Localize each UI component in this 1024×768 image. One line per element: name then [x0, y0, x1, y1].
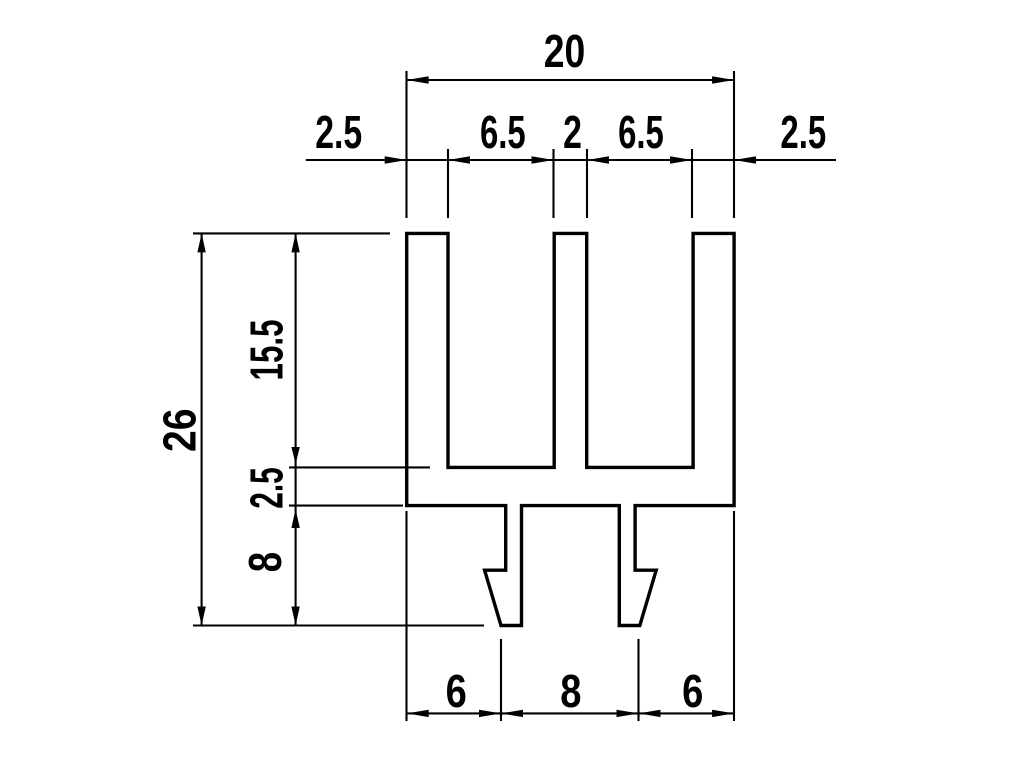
svg-text:6.5: 6.5	[480, 106, 526, 158]
arrow at x587 pointing left	[587, 156, 609, 163]
arrow 6 left end	[407, 710, 429, 717]
extension line slot bottom (y=467.4)	[289, 466, 430, 468]
arrow at x553.5 pointing right	[532, 156, 554, 163]
svg-text:8: 8	[560, 665, 581, 717]
arrow at x734.1 pointing left	[734, 156, 756, 163]
arrow 6 left end at x638.5	[639, 710, 661, 717]
extension line middle wall left (x=553.5)	[552, 149, 554, 218]
arrow at x692 pointing right	[670, 156, 692, 163]
arrow 15.5 bottom	[291, 447, 299, 464]
chained dimension line 2.5 / 6.5 / 2 / 6.5 / 2.5	[306, 159, 836, 161]
svg-text:2: 2	[563, 106, 582, 158]
arrow 20 left	[407, 76, 429, 83]
svg-text:6: 6	[446, 665, 467, 717]
svg-text:2.5: 2.5	[241, 467, 293, 509]
dimension line 26	[201, 233, 203, 625]
extension line left wall inner (x=448)	[447, 149, 449, 218]
dimension line 20	[407, 79, 734, 81]
arrow 26 top	[197, 233, 205, 252]
arrow 8 left end at x501	[501, 710, 523, 717]
arrow 6 right end at x501	[479, 710, 501, 717]
arrow 15.5 top	[291, 233, 299, 252]
arrow 26 bottom	[197, 607, 205, 626]
svg-text:2.5: 2.5	[315, 106, 362, 158]
arrow 8 bottom	[291, 607, 299, 626]
extension line middle wall right (x=587)	[586, 149, 588, 218]
extension line right wall inner (x=692)	[691, 149, 693, 218]
extension line bottom right outer (x=734)	[733, 511, 735, 721]
extension line profile top (y=233.4)	[193, 232, 390, 234]
svg-text:15.5: 15.5	[241, 320, 293, 381]
extension line bottom left foot (x=501)	[500, 639, 502, 721]
extension line bottom left outer (x=406.5)	[405, 511, 407, 721]
arrow 6 right end at x734.1	[712, 710, 734, 717]
dimension line 6 / 8 / 6	[407, 712, 734, 714]
svg-text:2.5: 2.5	[780, 106, 826, 158]
extension line profile bottom (y=625.5)	[193, 624, 484, 626]
arrow at x448 pointing left	[448, 156, 470, 163]
arrow at x406.7 pointing right	[385, 156, 407, 163]
arrow 2.5 bottom / 8 top	[291, 509, 299, 528]
svg-text:8: 8	[239, 552, 291, 572]
extension line right outer wall top (x=734)	[733, 71, 735, 218]
profile outline (extrusion cross-section)	[407, 233, 734, 625]
extension line left outer wall top (x=406.5)	[405, 71, 407, 218]
dimension line 15.5 / 2.5 / 8	[295, 233, 297, 625]
svg-text:6: 6	[682, 665, 703, 717]
svg-text:26: 26	[154, 409, 206, 453]
svg-text:20: 20	[544, 25, 586, 77]
extension line body bottom (y=505.6)	[289, 505, 403, 507]
svg-text:6.5: 6.5	[618, 106, 664, 158]
extension line bottom right foot (x=638.5)	[637, 639, 639, 721]
arrow 8 right end at x638.5	[617, 710, 639, 717]
arrow 20 right	[712, 76, 734, 83]
